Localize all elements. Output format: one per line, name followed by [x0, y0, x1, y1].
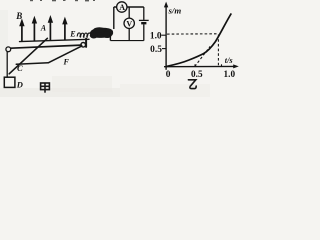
- terminal node right (circle): [81, 43, 86, 48]
- dashed line horizontal at 1.0: [167, 33, 217, 35]
- svg-text:0.5: 0.5: [150, 45, 162, 55]
- svg-text:0.5: 0.5: [191, 69, 203, 79]
- svg-text:t/s: t/s: [225, 56, 233, 65]
- y tick 1.0: [161, 34, 166, 36]
- yi character (drawn strokes): [188, 80, 196, 89]
- x tick 0.5: [194, 64, 196, 66]
- svg-text:B: B: [15, 11, 22, 21]
- x axis: [164, 65, 237, 67]
- rail S1 (back rail CE top line): [20, 39, 90, 41]
- wire top of meter loop: [114, 6, 144, 8]
- resistor D (square box): [4, 77, 15, 87]
- scan specks at top edge: [30, 0, 95, 1]
- terminal node left (circle): [6, 47, 11, 52]
- field arrow B2: [32, 16, 37, 41]
- svg-text:s/m: s/m: [168, 6, 182, 16]
- x tick 1.0: [221, 64, 223, 66]
- wire voltmeter stem: [128, 7, 130, 18]
- svg-text:E: E: [69, 29, 75, 38]
- field arrow B3: [48, 15, 53, 40]
- svg-text:A: A: [119, 3, 125, 12]
- right slanted edge S5: [49, 46, 82, 63]
- svg-text:A: A: [40, 23, 47, 32]
- y tick 0.5: [162, 48, 166, 50]
- rail S2 (front rail, terminal to terminal): [11, 45, 81, 48]
- wire left vertical of meter loop: [113, 7, 115, 29]
- y axis arrowhead: [164, 2, 168, 8]
- svg-text:0: 0: [166, 70, 171, 80]
- resistor blob (dark scanned mass): [90, 27, 113, 38]
- coiled wire from E to resistor blob: [77, 33, 90, 37]
- battery G1 top stem: [143, 7, 145, 20]
- jia character (drawn strokes): [41, 83, 50, 93]
- rod (sliding conductor): [9, 38, 47, 74]
- svg-text:V: V: [126, 19, 132, 28]
- dashed line vertical at 1.0: [217, 35, 219, 67]
- x axis arrowhead: [233, 64, 239, 68]
- dashed tangent segment: [195, 46, 210, 66]
- field arrow B1: [19, 18, 24, 41]
- link bar from right terminal up to rail end: [85, 39, 87, 47]
- wire bottom of meter loop: [110, 40, 143, 42]
- svg-text:F: F: [63, 57, 70, 66]
- battery short plate: [141, 22, 146, 24]
- voltmeter V1: [124, 18, 134, 28]
- svg-text:D: D: [16, 80, 23, 90]
- svg-text:1.0: 1.0: [224, 69, 236, 79]
- battery long plate: [139, 19, 149, 21]
- paper background: [0, 0, 240, 97]
- svg-text:1.0: 1.0: [150, 31, 162, 41]
- field arrow B4: [62, 17, 67, 40]
- y axis: [165, 4, 167, 70]
- wire from left terminal down to resistor D: [6, 52, 8, 77]
- bottom edge S3 (line at C): [16, 63, 48, 64]
- s-t curve: [167, 13, 232, 66]
- battery bottom stem: [143, 24, 145, 40]
- wire blob to bottom wire: [109, 34, 111, 41]
- svg-text:C: C: [17, 63, 23, 73]
- ammeter A1: [117, 2, 127, 12]
- wire voltmeter bottom stem: [128, 29, 130, 41]
